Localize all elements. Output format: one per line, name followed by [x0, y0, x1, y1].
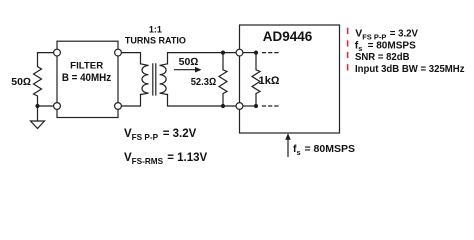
revision bar 1 — [347, 28, 349, 34]
transformer T1 secondary winding — [160, 64, 168, 95]
node junction 52.3 top — [221, 51, 225, 55]
svg-text:1kΩ: 1kΩ — [259, 75, 281, 87]
dashed continuation bottom — [263, 105, 279, 107]
svg-text:SNR = 82dB: SNR = 82dB — [355, 51, 410, 63]
svg-text:Input 3dB BW = 325MHz: Input 3dB BW = 325MHz — [355, 63, 465, 75]
svg-text:50Ω: 50Ω — [11, 76, 31, 88]
svg-text:fs= 80MSPS: fs= 80MSPS — [293, 143, 355, 157]
wire top-left rail — [38, 52, 55, 54]
wire ground stem — [37, 106, 39, 121]
wire ADC input top internal — [242, 52, 256, 54]
terminal filter top-left — [54, 49, 61, 56]
wire bottom-left rail — [38, 105, 55, 107]
dashed continuation top — [263, 52, 279, 54]
svg-text:TURNS RATIO: TURNS RATIO — [125, 35, 186, 46]
AD9446 block outline — [240, 25, 340, 133]
terminal filter top-right — [115, 49, 122, 56]
svg-text:AD9446: AD9446 — [263, 29, 313, 44]
wire secondary bottom to ADC — [168, 95, 237, 107]
resistor 52.3 ohm — [219, 53, 227, 106]
svg-text:VFS-RMS= 1.13V: VFS-RMS= 1.13V — [124, 152, 207, 166]
svg-text:FILTER: FILTER — [70, 61, 103, 72]
wire ADC input bottom internal — [242, 105, 256, 107]
wire transformer to filter bottom — [121, 95, 141, 107]
svg-text:52.3Ω: 52.3Ω — [191, 76, 217, 88]
svg-text:VFS P-P= 3.2V: VFS P-P= 3.2V — [124, 128, 197, 142]
svg-text:B = 40MHz: B = 40MHz — [62, 72, 112, 84]
node junction 52.3 bottom — [221, 104, 225, 108]
arrow signal direction — [174, 69, 196, 70]
node junction 1k top — [254, 51, 258, 55]
resistor R 50 ohm input termination — [34, 53, 42, 106]
transformer T1 primary winding — [141, 64, 149, 95]
filter block outline — [57, 41, 118, 117]
wire filter to transformer top — [121, 53, 141, 64]
revision bar 4 — [347, 64, 349, 70]
terminal filter bottom-right — [115, 103, 122, 110]
node junction left — [35, 104, 39, 108]
svg-text:50Ω: 50Ω — [179, 56, 199, 68]
terminal filter bottom-left — [54, 103, 61, 110]
svg-text:1:1: 1:1 — [149, 25, 162, 35]
ground — [31, 121, 45, 129]
revision bar 2 — [347, 40, 349, 46]
node junction 1k bottom — [254, 104, 258, 108]
wire secondary top to ADC — [168, 53, 237, 64]
revision bar 3 — [347, 52, 349, 58]
resistor 1k ohm internal — [252, 53, 260, 106]
sample clock stem — [287, 139, 289, 157]
arrow sample clock — [285, 133, 291, 140]
transformer core — [153, 64, 156, 95]
terminal ADC bottom — [236, 103, 243, 110]
terminal ADC top — [236, 49, 243, 56]
